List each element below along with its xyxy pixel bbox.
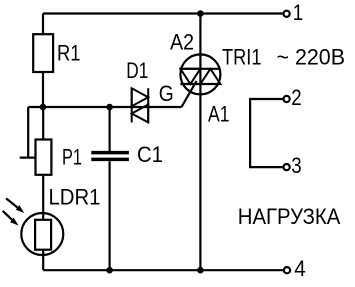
svg-text:~ 220В: ~ 220В [277, 44, 346, 69]
terminal 3 [284, 164, 290, 170]
resistor R1 [33, 34, 53, 72]
terminal 2 [284, 96, 290, 102]
node junction bottom rail / C1 [106, 267, 113, 274]
svg-text:C1: C1 [137, 142, 163, 167]
light arrow 1 [6, 198, 24, 213]
svg-text:НАГРУЗКА: НАГРУЗКА [238, 204, 341, 229]
wire LDR1 bottom lead [42, 251, 44, 270]
svg-text:R1: R1 [57, 41, 81, 66]
wire C1 bottom lead [108, 161, 110, 270]
svg-text:A2: A2 [170, 29, 194, 54]
wire gate diagonal [182, 81, 197, 107]
wire bottom rail [43, 269, 283, 271]
svg-text:P1: P1 [62, 145, 82, 170]
wire terminal 2 to terminal 3 loop [250, 99, 283, 167]
wire C1 top lead [108, 107, 110, 151]
svg-text:1: 1 [293, 0, 303, 25]
potentiometer P1 [36, 140, 52, 175]
svg-text:D1: D1 [126, 58, 148, 83]
wire triac vertical [199, 14, 201, 271]
node junction mid rail / C1 [106, 104, 113, 111]
svg-text:3: 3 [291, 153, 301, 178]
svg-text:2: 2 [291, 85, 301, 110]
triac TRI1 [180, 54, 220, 94]
diac D1 [132, 88, 149, 122]
svg-text:G: G [159, 81, 174, 106]
wire mid rail to diac and gate corner [28, 106, 181, 108]
svg-text:A1: A1 [208, 102, 230, 127]
wire P1 bottom lead [42, 176, 44, 219]
node junction top rail / triac A2 [197, 10, 204, 17]
photoresistor LDR1 [21, 213, 63, 255]
light arrow 2 [3, 211, 19, 226]
terminal 4 [284, 267, 290, 273]
svg-text:4: 4 [294, 256, 306, 281]
svg-text:TRI1: TRI1 [222, 44, 262, 69]
terminal 1 [284, 11, 290, 17]
wire R1 top lead [42, 14, 44, 35]
node junction R1/P1 [40, 104, 47, 111]
svg-text:LDR1: LDR1 [49, 185, 101, 210]
capacitor C1 [91, 153, 129, 160]
wire P1 wiper [20, 107, 35, 158]
node junction bottom rail / triac A1 [197, 267, 204, 274]
wire R1 bottom lead [42, 72, 44, 107]
wire P1 top lead [42, 107, 44, 139]
wire top rail [43, 12, 283, 14]
